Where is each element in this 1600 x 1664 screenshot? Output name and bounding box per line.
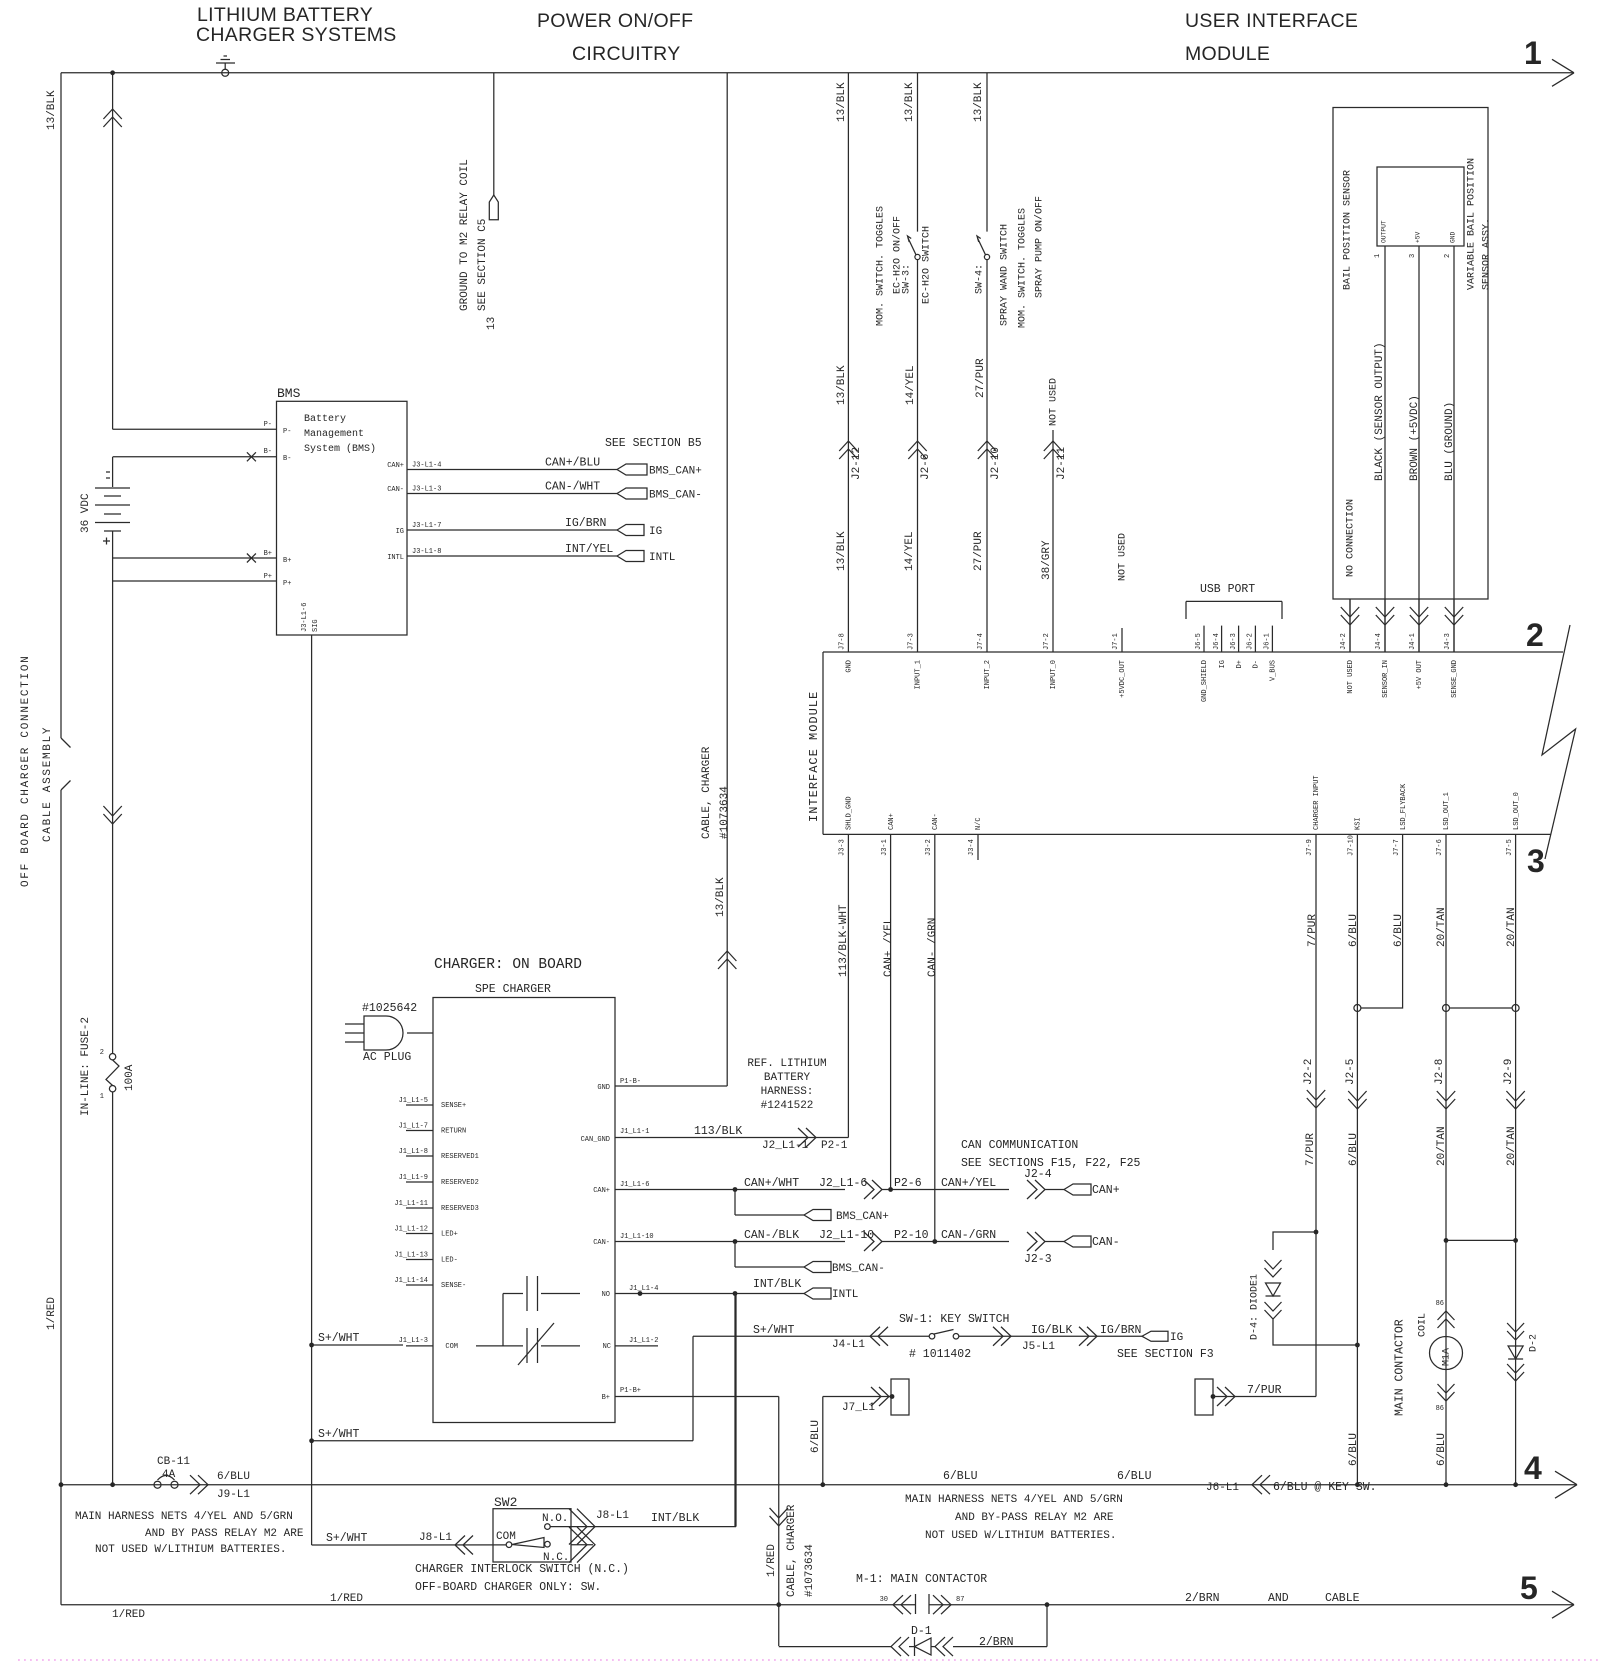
svg-text:CB-11: CB-11 [157,1456,190,1468]
svg-text:1/RED: 1/RED [766,1544,778,1577]
svg-text:J7-2: J7-2 [1043,633,1051,650]
svg-text:J2_L1-10: J2_L1-10 [819,1229,874,1242]
svg-text:6/BLU: 6/BLU [1117,1470,1152,1483]
svg-text:J2-3: J2-3 [1024,1253,1052,1266]
svg-text:COIL: COIL [1417,1313,1428,1337]
svg-text:2: 2 [1526,617,1544,653]
svg-text:BLU (GROUND): BLU (GROUND) [1444,402,1456,481]
svg-text:J3-2: J3-2 [925,839,933,856]
svg-text:#1073634: #1073634 [719,786,731,839]
svg-text:D+: D+ [1236,660,1244,668]
svg-text:20/TAN: 20/TAN [1506,907,1518,947]
svg-text:CAN+/BLU: CAN+/BLU [545,457,600,470]
svg-text:SIG: SIG [312,619,320,632]
svg-text:13/BLK: 13/BLK [973,82,985,122]
svg-text:J1_L1-2: J1_L1-2 [629,1337,658,1345]
svg-text:AND BY-PASS RELAY M2 ARE: AND BY-PASS RELAY M2 ARE [955,1512,1114,1524]
svg-text:RESERVED2: RESERVED2 [441,1179,479,1187]
svg-text:36 VDC: 36 VDC [80,493,92,533]
svg-text:6/BLU @ KEY SW.: 6/BLU @ KEY SW. [1273,1481,1377,1494]
svg-text:J2-10: J2-10 [990,447,1002,480]
svg-text:J2-11: J2-11 [1056,447,1068,480]
svg-text:P2-1: P2-1 [821,1140,848,1152]
svg-text:B-: B- [283,455,291,463]
svg-text:BMS_CAN-: BMS_CAN- [649,490,702,502]
svg-text:J7-1: J7-1 [1112,633,1120,650]
svg-text:J6-3: J6-3 [1230,633,1238,650]
svg-text:D-1: D-1 [911,1625,932,1638]
svg-text:J7-6: J7-6 [1436,839,1444,856]
svg-text:J8-L1: J8-L1 [596,1510,629,1522]
svg-text:BMS: BMS [277,386,301,401]
svg-text:P2-10: P2-10 [894,1229,929,1242]
svg-text:SHLD_GND: SHLD_GND [846,796,854,830]
svg-text:6/BLU: 6/BLU [1348,1433,1360,1466]
svg-text:POWER ON/OFF: POWER ON/OFF [537,10,693,32]
svg-text:SENSOR ASSY.: SENSOR ASSY. [1481,218,1492,290]
svg-text:GROUND TO M2 RELAY COIL: GROUND TO M2 RELAY COIL [459,159,471,311]
svg-text:J4-L1: J4-L1 [832,1339,865,1351]
svg-text:6/BLU: 6/BLU [943,1470,978,1483]
svg-text:J7-8: J7-8 [839,633,847,650]
svg-text:#1241522: #1241522 [761,1100,814,1112]
svg-text:LED-: LED- [441,1257,458,1265]
svg-text:J3-3: J3-3 [839,839,847,856]
svg-text:S+/WHT: S+/WHT [326,1532,368,1545]
svg-text:J6-L1: J6-L1 [1206,1482,1239,1494]
svg-text:2: 2 [1444,254,1452,258]
svg-text:#1025642: #1025642 [362,1002,417,1015]
svg-text:6/BLU: 6/BLU [1393,914,1405,947]
svg-text:4: 4 [1524,1450,1542,1486]
svg-text:NC: NC [603,1343,611,1351]
svg-text:P1-B-: P1-B- [620,1078,641,1086]
svg-text:INTL: INTL [649,552,675,564]
svg-text:1: 1 [1374,254,1382,258]
svg-text:SENSE_GND: SENSE_GND [1451,660,1459,698]
svg-text:3: 3 [1527,843,1545,879]
svg-text:20/TAN: 20/TAN [1436,907,1448,947]
svg-text:J6-2: J6-2 [1247,633,1255,650]
svg-text:13: 13 [486,317,498,330]
svg-text:J1_L1-7: J1_L1-7 [399,1123,428,1131]
svg-text:GND: GND [846,660,854,673]
svg-text:INPUT_2: INPUT_2 [984,660,992,689]
svg-text:MAIN HARNESS NETS 4/YEL AND 5/: MAIN HARNESS NETS 4/YEL AND 5/GRN [905,1494,1123,1506]
svg-text:CHARGER INTERLOCK SWITCH (N.C.: CHARGER INTERLOCK SWITCH (N.C.) [415,1563,629,1576]
svg-text:AND BY PASS RELAY M2 ARE: AND BY PASS RELAY M2 ARE [145,1528,304,1540]
svg-text:13/BLK: 13/BLK [904,82,916,122]
svg-text:CHARGER: ON BOARD: CHARGER: ON BOARD [434,957,582,973]
svg-text:D-4: DIODE1: D-4: DIODE1 [1249,1274,1260,1340]
svg-text:VARIABLE BAIL POSITION: VARIABLE BAIL POSITION [1466,158,1477,290]
svg-text:B+: B+ [264,550,272,558]
svg-text:J7-3: J7-3 [908,633,916,650]
svg-text:N.O.: N.O. [542,1513,568,1525]
svg-text:BATTERY: BATTERY [764,1072,811,1084]
svg-text:CABLE: CABLE [1325,1592,1360,1605]
svg-text:V_BUS: V_BUS [1270,660,1278,681]
svg-text:OUTPUT: OUTPUT [1381,220,1388,243]
svg-text:SENSE-: SENSE- [441,1282,466,1290]
svg-text:4A: 4A [162,1469,176,1481]
svg-text:BAIL POSITION SENSOR: BAIL POSITION SENSOR [1342,170,1353,290]
svg-text:J1_L1-11: J1_L1-11 [394,1200,428,1208]
svg-text:LITHIUM BATTERY: LITHIUM BATTERY [197,4,373,26]
svg-text:87: 87 [956,1596,964,1604]
svg-text:IG/BRN: IG/BRN [565,517,606,530]
svg-text:J5-L1: J5-L1 [1022,1341,1055,1353]
svg-text:CAN- /GRN: CAN- /GRN [927,918,939,977]
svg-text:USB PORT: USB PORT [1200,583,1255,596]
svg-text:INTERFACE MODULE: INTERFACE MODULE [807,691,821,822]
svg-text:SENSOR_IN: SENSOR_IN [1382,660,1390,698]
svg-text:INTL: INTL [832,1289,858,1301]
svg-text:COM: COM [445,1343,458,1351]
svg-text:J2-5: J2-5 [1345,1059,1357,1085]
svg-text:LSD_OUT_0: LSD_OUT_0 [1513,792,1521,830]
svg-text:B-: B- [264,448,272,456]
svg-text:CHARGER SYSTEMS: CHARGER SYSTEMS [196,24,397,46]
svg-text:+5VDC_OUT: +5VDC_OUT [1119,660,1127,698]
svg-text:GND_SHIELD: GND_SHIELD [1201,660,1209,702]
svg-text:J2_L1-6: J2_L1-6 [819,1177,867,1190]
svg-text:14/YEL: 14/YEL [905,365,917,405]
svg-text:IG/BRN: IG/BRN [1100,1324,1141,1337]
svg-text:J2-9: J2-9 [1503,1059,1515,1085]
svg-text:IG: IG [396,528,404,536]
svg-text:OFF-BOARD CHARGER ONLY: SW.: OFF-BOARD CHARGER ONLY: SW. [415,1581,601,1594]
svg-text:+5V OUT: +5V OUT [1416,660,1424,689]
svg-text:CAN+: CAN+ [593,1187,610,1195]
svg-text:1/RED: 1/RED [46,1297,58,1330]
svg-text:AND: AND [1268,1592,1289,1605]
svg-text:SEE SECTION F3: SEE SECTION F3 [1117,1348,1214,1361]
svg-text:7/PUR: 7/PUR [1307,914,1319,947]
svg-text:CAN+: CAN+ [888,813,896,830]
svg-text:IG: IG [649,526,662,538]
svg-text:CAN-: CAN- [1092,1236,1120,1249]
svg-text:CAN+ /YEL: CAN+ /YEL [883,918,895,977]
svg-text:J2-12: J2-12 [851,447,863,480]
svg-text:INT/BLK: INT/BLK [651,1512,699,1525]
svg-text:J4-3: J4-3 [1444,633,1452,650]
svg-text:KSI: KSI [1355,817,1363,830]
svg-text:6/BLU: 6/BLU [810,1420,822,1453]
svg-text:2/BRN: 2/BRN [979,1636,1014,1649]
svg-text:CAN-/WHT: CAN-/WHT [545,481,600,494]
svg-text:SW-4:: SW-4: [974,264,985,294]
svg-text:LED+: LED+ [441,1231,458,1239]
svg-text:20/TAN: 20/TAN [1506,1126,1518,1166]
svg-text:SPRAY PUMP ON/OFF: SPRAY PUMP ON/OFF [1033,196,1045,298]
svg-text:CAN-: CAN- [932,813,940,830]
svg-text:HARNESS:: HARNESS: [761,1086,814,1098]
svg-text:J1_L1-12: J1_L1-12 [394,1226,428,1234]
svg-text:NOT USED W/LITHIUM BATTERIES.: NOT USED W/LITHIUM BATTERIES. [95,1544,286,1556]
svg-text:113/BLK: 113/BLK [694,1125,742,1138]
svg-text:J3-L1-3: J3-L1-3 [412,486,441,494]
svg-text:NO CONNECTION: NO CONNECTION [1345,499,1356,577]
svg-text:J3-1: J3-1 [881,839,889,856]
svg-text:IN-LINE: FUSE-2: IN-LINE: FUSE-2 [80,1017,92,1116]
svg-text:S+/WHT: S+/WHT [318,1428,360,1441]
svg-text:J2_L1-1: J2_L1-1 [762,1140,809,1152]
svg-text:27/PUR: 27/PUR [973,531,985,571]
svg-text:M1A: M1A [1441,1348,1452,1366]
svg-text:P+: P+ [264,573,272,581]
svg-text:CABLE, CHARGER: CABLE, CHARGER [701,746,713,839]
svg-text:LSD_OUT_1: LSD_OUT_1 [1443,792,1451,830]
svg-text:J1_L1-10: J1_L1-10 [620,1233,654,1241]
svg-text:INT/BLK: INT/BLK [753,1278,801,1291]
svg-text:J6-4: J6-4 [1213,633,1221,650]
svg-text:LSD_FLYBACK: LSD_FLYBACK [1400,783,1408,830]
svg-text:7/PUR: 7/PUR [1247,1384,1282,1397]
svg-text:COM: COM [496,1531,516,1543]
svg-text:20/TAN: 20/TAN [1436,1126,1448,1166]
svg-text:SENSE+: SENSE+ [441,1102,466,1110]
svg-text:P1-B+: P1-B+ [620,1387,641,1395]
svg-text:J1_L1-1: J1_L1-1 [620,1128,649,1136]
svg-text:J3-L1-6: J3-L1-6 [301,603,309,632]
svg-text:86: 86 [1436,1300,1444,1308]
svg-text:SW2: SW2 [494,1495,517,1510]
svg-text:1: 1 [100,1093,104,1101]
svg-text:J1_L1-4: J1_L1-4 [629,1285,658,1293]
svg-text:14/YEL: 14/YEL [904,531,916,571]
svg-text:M-1: MAIN CONTACTOR: M-1: MAIN CONTACTOR [856,1573,987,1586]
svg-text:J2-6: J2-6 [920,454,932,480]
svg-text:13/BLK: 13/BLK [715,877,727,917]
svg-text:J4-1: J4-1 [1409,633,1417,650]
svg-text:CAN-: CAN- [387,486,404,494]
svg-text:J7_L1: J7_L1 [842,1402,875,1414]
svg-text:Management: Management [304,429,364,440]
svg-text:USER INTERFACE: USER INTERFACE [1185,10,1358,32]
svg-text:P2-6: P2-6 [894,1177,922,1190]
svg-text:CAN+: CAN+ [1092,1184,1120,1197]
svg-text:NOT USED W/LITHIUM BATTERIES.: NOT USED W/LITHIUM BATTERIES. [925,1530,1116,1542]
svg-text:J2-2: J2-2 [1303,1059,1315,1085]
svg-text:CIRCUITRY: CIRCUITRY [572,43,681,65]
svg-text:J9-L1: J9-L1 [217,1489,250,1501]
svg-text:BMS_CAN+: BMS_CAN+ [836,1211,889,1223]
svg-text:J1_L1-8: J1_L1-8 [399,1148,428,1156]
svg-text:MOM. SWITCH. TOGGLES: MOM. SWITCH. TOGGLES [875,206,886,326]
svg-text:J6-5: J6-5 [1195,633,1203,650]
svg-text:BMS_CAN-: BMS_CAN- [832,1263,885,1275]
svg-text:CAN+/YEL: CAN+/YEL [941,1177,996,1190]
svg-text:BMS_CAN+: BMS_CAN+ [649,466,702,478]
svg-text:NOT USED: NOT USED [1117,533,1128,581]
svg-text:INT/YEL: INT/YEL [565,543,613,556]
svg-text:3: 3 [1409,254,1417,258]
svg-text:100A: 100A [124,1064,136,1091]
svg-text:1/RED: 1/RED [330,1593,363,1605]
svg-text:GND: GND [1450,231,1457,243]
svg-text:MAIN HARNESS NETS 4/YEL AND 5/: MAIN HARNESS NETS 4/YEL AND 5/GRN [75,1511,293,1523]
svg-text:RETURN: RETURN [441,1128,466,1136]
svg-text:BROWN (+5VDC): BROWN (+5VDC) [1409,395,1421,481]
svg-text:SW-3:: SW-3: [901,264,912,294]
svg-text:113/BLK-WHT: 113/BLK-WHT [838,904,850,977]
svg-text:J7-7: J7-7 [1393,839,1401,856]
svg-text:D-2: D-2 [1528,1334,1539,1352]
svg-text:MAIN CONTACTOR: MAIN CONTACTOR [1394,1319,1407,1416]
svg-text:P+: P+ [283,580,291,588]
svg-text:RESERVED3: RESERVED3 [441,1205,479,1213]
svg-text:Battery: Battery [304,414,346,425]
svg-text:EC-H2O SWITCH: EC-H2O SWITCH [921,226,932,304]
svg-text:SPRAY WAND SWITCH: SPRAY WAND SWITCH [999,224,1010,326]
svg-text:6/BLU: 6/BLU [1436,1433,1448,1466]
svg-text:J1_L1-6: J1_L1-6 [620,1181,649,1189]
svg-text:SEE SECTION C5: SEE SECTION C5 [477,219,489,311]
svg-text:IG: IG [1170,1332,1183,1344]
svg-text:MOM. SWITCH. TOGGLES: MOM. SWITCH. TOGGLES [1017,208,1028,328]
svg-text:#1073634: #1073634 [804,1544,816,1597]
svg-text:System (BMS): System (BMS) [304,443,376,455]
svg-text:J7-9: J7-9 [1306,839,1314,856]
svg-text:INTL: INTL [387,554,404,562]
svg-text:N/C: N/C [975,817,983,830]
svg-text:J3-4: J3-4 [968,839,976,856]
svg-text:SW-1: KEY SWITCH: SW-1: KEY SWITCH [899,1313,1009,1326]
svg-text:5: 5 [1520,1570,1538,1606]
svg-text:IG: IG [1219,660,1227,668]
svg-text:J6-1: J6-1 [1264,633,1272,650]
svg-text:7/PUR: 7/PUR [1305,1133,1317,1166]
svg-text:B+: B+ [283,557,291,565]
svg-text:CAN-/BLK: CAN-/BLK [744,1229,799,1242]
svg-text:CAN_GND: CAN_GND [581,1136,610,1144]
svg-text:OFF BOARD CHARGER CONNECTION: OFF BOARD CHARGER CONNECTION [20,655,32,887]
svg-text:13/BLK: 13/BLK [46,90,58,130]
svg-text:BLACK (SENSOR OUTPUT): BLACK (SENSOR OUTPUT) [1374,342,1386,481]
svg-text:MODULE: MODULE [1185,43,1270,65]
svg-text:D-: D- [1253,660,1261,668]
svg-text:6/BLU: 6/BLU [217,1471,250,1483]
svg-text:INPUT_1: INPUT_1 [915,660,923,689]
svg-text:J3-L1-7: J3-L1-7 [412,522,441,530]
svg-text:RESERVED1: RESERVED1 [441,1153,479,1161]
svg-text:30: 30 [880,1596,888,1604]
svg-text:REF. LITHIUM: REF. LITHIUM [747,1058,826,1070]
svg-text:CABLE ASSEMBLY: CABLE ASSEMBLY [42,726,54,842]
svg-text:S+/WHT: S+/WHT [318,1332,360,1345]
svg-text:NOT USED: NOT USED [1048,378,1059,426]
svg-text:P-: P- [264,421,272,429]
svg-text:J7-4: J7-4 [977,633,985,650]
svg-text:2/BRN: 2/BRN [1185,1592,1220,1605]
svg-text:J4-4: J4-4 [1375,633,1383,650]
svg-text:CAN-/GRN: CAN-/GRN [941,1229,996,1242]
svg-text:S+/WHT: S+/WHT [753,1324,795,1337]
svg-text:J1_L1-13: J1_L1-13 [394,1252,428,1260]
svg-text:2: 2 [100,1049,104,1057]
svg-text:13/BLK: 13/BLK [836,531,848,571]
svg-text:86: 86 [1436,1405,1444,1413]
svg-text:27/PUR: 27/PUR [975,358,987,398]
svg-text:GND: GND [597,1084,610,1092]
svg-text:CAN-: CAN- [593,1239,610,1247]
svg-text:J7-5: J7-5 [1506,839,1514,856]
svg-text:J3-L1-8: J3-L1-8 [412,548,441,556]
svg-text:P-: P- [283,428,291,436]
svg-text:SPE CHARGER: SPE CHARGER [475,983,551,996]
svg-text:J1_L1-3: J1_L1-3 [399,1337,428,1345]
svg-text:6/BLU: 6/BLU [1348,914,1360,947]
svg-text:INPUT_0: INPUT_0 [1050,660,1058,689]
svg-text:SEE SECTION B5: SEE SECTION B5 [605,437,702,450]
svg-text:NO: NO [602,1291,610,1299]
svg-text:B+: B+ [602,1394,610,1402]
svg-text:J3-L1-4: J3-L1-4 [412,462,441,470]
svg-text:J2-8: J2-8 [1434,1059,1446,1085]
svg-text:J1_L1-5: J1_L1-5 [399,1097,428,1105]
svg-text:1/RED: 1/RED [112,1609,145,1621]
svg-text:NOT USED: NOT USED [1347,660,1355,694]
svg-text:CAN COMMUNICATION: CAN COMMUNICATION [961,1139,1078,1152]
svg-text:CAN+: CAN+ [387,462,404,470]
svg-text:J8-L1: J8-L1 [419,1532,452,1544]
svg-text:J1_L1-14: J1_L1-14 [394,1277,428,1285]
svg-text:13/BLK: 13/BLK [836,365,848,405]
svg-text:+5V: +5V [1415,231,1422,243]
svg-text:J7-10: J7-10 [1348,835,1356,856]
svg-text:J1_L1-9: J1_L1-9 [399,1174,428,1182]
svg-text:IG/BLK: IG/BLK [1031,1324,1073,1337]
svg-text:1: 1 [1524,35,1542,71]
svg-text:# 1011402: # 1011402 [909,1348,971,1361]
svg-text:CAN+/WHT: CAN+/WHT [744,1177,799,1190]
svg-text:AC PLUG: AC PLUG [363,1051,411,1064]
svg-text:6/BLU: 6/BLU [1348,1133,1360,1166]
svg-text:SEE SECTIONS F15, F22, F25: SEE SECTIONS F15, F22, F25 [961,1157,1141,1170]
svg-text:CHARGER INPUT: CHARGER INPUT [1313,775,1321,830]
svg-text:CABLE, CHARGER: CABLE, CHARGER [786,1504,798,1597]
svg-text:38/GRY: 38/GRY [1041,540,1053,580]
svg-text:J4-2: J4-2 [1340,633,1348,650]
svg-text:13/BLK: 13/BLK [836,82,848,122]
